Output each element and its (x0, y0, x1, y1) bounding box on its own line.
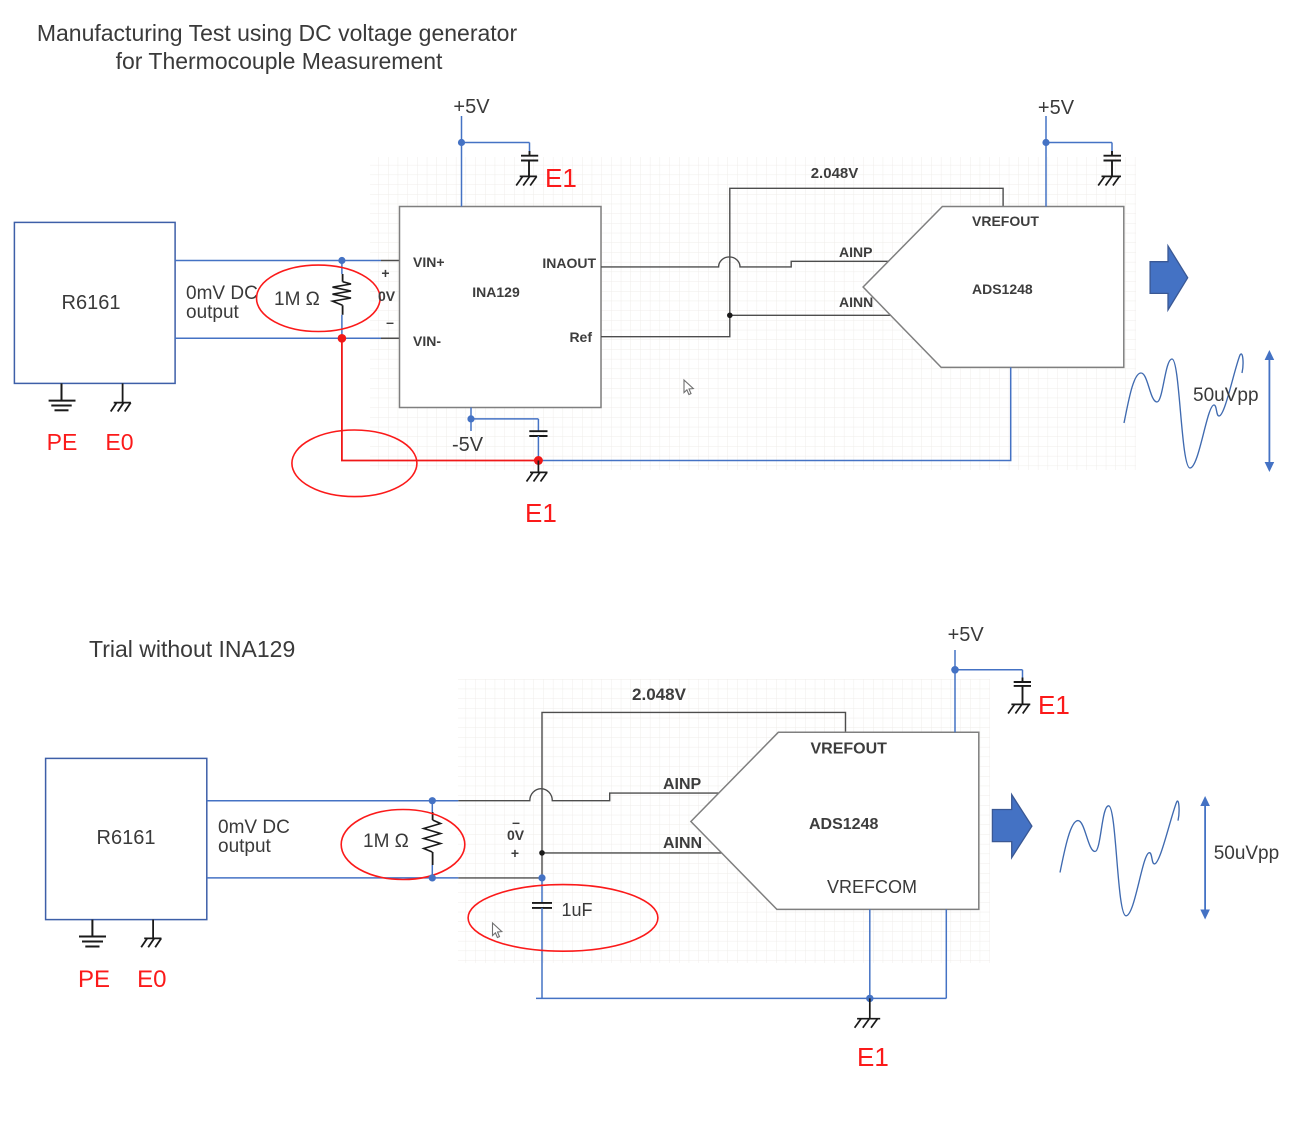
ground E1 (top middle) (527, 461, 548, 482)
node VIN- junction dot red (top) (338, 334, 347, 343)
ground PE (top) (49, 383, 76, 410)
svg-text:E1: E1 (857, 1042, 889, 1072)
wire blue rail to ADS bottom (top) (538, 367, 1010, 460)
svg-text:output: output (218, 836, 272, 857)
ADC U3 ADS1248 (bottom) (663, 732, 979, 909)
svg-text:R6161: R6161 (62, 292, 121, 314)
svg-text:+: + (511, 845, 519, 861)
wire 2.048V net (bottom) (542, 712, 846, 878)
svg-text:50uVpp: 50uVpp (1193, 385, 1259, 406)
svg-text:VREFOUT: VREFOUT (811, 741, 888, 758)
label 0mV DC output (top) (186, 283, 258, 323)
power -5V (top) (471, 408, 538, 432)
svg-text:AINP: AINP (839, 244, 872, 260)
mouse cursor (bottom) (493, 923, 502, 938)
node junction dot AINN (bottom) (539, 850, 545, 856)
waveform 50uVpp (bottom) (1060, 801, 1179, 916)
dimension arrow 50uVpp (bottom) (1200, 796, 1210, 920)
svg-text:for Thermocouple Measurement: for Thermocouple Measurement (116, 48, 443, 74)
annotation ellipse on red wire corner (top) (292, 430, 417, 497)
svg-text:1M Ω: 1M Ω (363, 831, 409, 852)
node red dot E1 rail (top) (534, 456, 543, 465)
label polarity 0V (top) (378, 265, 396, 330)
dimension arrow 50uVpp (top) (1265, 350, 1275, 472)
svg-text:PE: PE (47, 429, 78, 455)
wire ADS bottom right pin (bottom) (945, 909, 947, 998)
capacitor -5V to E1 (top) (529, 431, 547, 436)
power +5V (top right) (1046, 116, 1112, 207)
wire VIN+ net (top) (175, 260, 399, 262)
label 0mV DC output (bottom) (218, 817, 290, 857)
label polarity 0V (bottom) (507, 814, 525, 861)
power +5V (bottom) (955, 650, 1023, 732)
svg-text:R6161: R6161 (97, 827, 156, 849)
wire AINN branch (bottom) (542, 852, 722, 854)
title (37, 20, 518, 74)
svg-text:2.048V: 2.048V (632, 685, 687, 704)
svg-text:+5V: +5V (948, 624, 985, 646)
capacitor to ground (top right) (1104, 151, 1122, 176)
svg-text:Ref: Ref (569, 329, 592, 345)
resistor 1M ohm (bottom) (424, 801, 441, 878)
node junction dot AINN (top) (727, 313, 733, 319)
power +5V (top left) (462, 116, 530, 207)
ADC U2 ADS1248 (top) (839, 207, 1124, 368)
wire red from VIN- to E1 (top) (342, 338, 539, 460)
svg-text:VREFOUT: VREFOUT (972, 213, 1039, 229)
svg-text:–: – (386, 314, 394, 330)
svg-text:50uVpp: 50uVpp (1214, 843, 1280, 864)
svg-text:Trial without INA129: Trial without INA129 (89, 636, 295, 662)
capacitor to E1 (bottom right) (1014, 678, 1031, 705)
node VIN+ junction dot (top) (338, 257, 345, 264)
resistor 1M ohm (top) (333, 261, 352, 339)
svg-text:output: output (186, 302, 240, 323)
block arrow (top) (1150, 246, 1188, 310)
wire Ref / 2.048V net (top) (601, 188, 1003, 336)
svg-text:ADS1248: ADS1248 (809, 816, 878, 833)
node +5V junction dot (top left) (458, 139, 465, 146)
node junction dot rail (bottom) (866, 995, 873, 1002)
node dots (bottom resistor) (429, 797, 436, 804)
wire AINP approach with hop (bottom) (458, 789, 718, 801)
svg-text:VIN-: VIN- (413, 333, 441, 349)
svg-text:VREFCOM: VREFCOM (827, 877, 917, 897)
svg-text:0V: 0V (507, 827, 525, 843)
wire VREFCOM pin (bottom) (869, 909, 871, 998)
wire ground rail (bottom) (536, 997, 946, 999)
svg-text:0mV DC: 0mV DC (186, 283, 258, 304)
annotation ellipse around 1uF (468, 885, 658, 952)
svg-text:VIN+: VIN+ (413, 254, 445, 270)
svg-text:0V: 0V (378, 288, 396, 304)
svg-text:AINP: AINP (663, 776, 702, 793)
capacitor to E1 (top left) (521, 151, 538, 176)
ground (top right) (1098, 176, 1121, 185)
wire output+ (bottom) (207, 800, 458, 802)
capacitor C 1uF (bottom) (532, 878, 552, 999)
wire INAOUT to AINP with hop (top) (601, 257, 889, 267)
grid top (370, 157, 1136, 470)
svg-text:E1: E1 (525, 498, 557, 528)
wire output- (bottom) (207, 877, 458, 879)
svg-text:+5V: +5V (1038, 97, 1075, 119)
op-amp U1 INA129 box (400, 207, 602, 408)
block arrow (bottom) (992, 795, 1032, 858)
svg-text:2.048V: 2.048V (811, 165, 859, 182)
ground E1 (bottom center) (855, 998, 881, 1027)
annotation ellipse around resistor (bottom) (341, 810, 465, 880)
generator R6161 (bottom) (46, 758, 207, 919)
svg-text:Manufacturing Test using DC vo: Manufacturing Test using DC voltage gene… (37, 20, 518, 46)
svg-text:E0: E0 (105, 429, 133, 455)
wire VIN- net (top) (175, 337, 399, 339)
ground PE (bottom) (79, 920, 106, 947)
annotation ellipse around resistor (top) (257, 265, 381, 331)
wire output- extension (bottom) (458, 877, 542, 879)
waveform 50uVpp (top) (1124, 354, 1243, 468)
svg-text:+: + (381, 265, 389, 281)
svg-text:ADS1248: ADS1248 (972, 281, 1033, 297)
svg-text:1uF: 1uF (562, 900, 593, 920)
generator R6161 (top) (14, 222, 175, 383)
svg-text:AINN: AINN (663, 835, 702, 852)
ground E0 (bottom) (141, 920, 161, 948)
svg-text:AINN: AINN (839, 294, 873, 310)
svg-text:0mV DC: 0mV DC (218, 817, 290, 838)
node -5V junction dot (467, 415, 474, 422)
grid bottom (458, 679, 990, 963)
svg-text:1M Ω: 1M Ω (274, 289, 320, 310)
ground E1 (top left) (516, 176, 537, 185)
svg-text:PE: PE (78, 966, 110, 993)
svg-text:-5V: -5V (452, 434, 484, 456)
svg-text:INA129: INA129 (472, 284, 520, 300)
svg-text:+5V: +5V (453, 96, 490, 118)
svg-text:E1: E1 (1038, 690, 1070, 720)
node +5V junction dot (top right) (1042, 139, 1049, 146)
wire AINN branch (top) (730, 314, 891, 316)
svg-text:E1: E1 (545, 163, 577, 193)
mouse cursor (top) (684, 380, 693, 395)
svg-text:E0: E0 (137, 966, 166, 993)
node +5V junction dot (bottom) (951, 666, 959, 674)
ground E0 (top, chassis) (111, 383, 131, 411)
ground E1 (bottom right) (1008, 704, 1030, 713)
svg-text:INAOUT: INAOUT (542, 255, 596, 271)
